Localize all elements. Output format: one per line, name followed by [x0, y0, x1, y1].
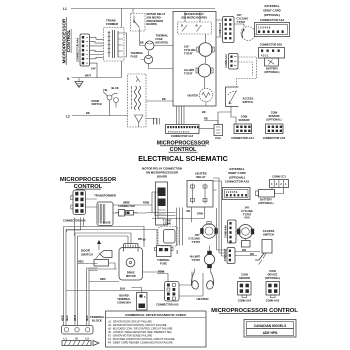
middle wire bundle (bottom) — [147, 118, 205, 254]
svg-text:BK: BK — [202, 110, 206, 114]
heater relay box (bottom) — [187, 181, 213, 208]
140 cycling t'stat caption (top) — [237, 13, 249, 24]
svg-text:BN: BN — [242, 248, 246, 252]
microprocessor control title (top schematic) — [157, 141, 210, 154]
svg-text:CONN: CONN — [163, 222, 171, 226]
svg-text:BATTERY: BATTERY — [260, 198, 272, 202]
heater element HR1 — [188, 88, 213, 106]
svg-text:CONNECTOR AA3: CONNECTOR AA3 — [225, 180, 250, 184]
thermal fuse F1 — [131, 51, 174, 69]
svg-text:SWITCH: SWITCH — [243, 100, 253, 104]
svg-text:RED: RED — [60, 315, 64, 321]
access switch (top) — [226, 87, 254, 107]
thermal fuse (heater) F2 — [140, 31, 174, 50]
svg-text:THERMAL: THERMAL — [156, 34, 169, 38]
svg-text:BOARD: BOARD — [157, 174, 167, 178]
svg-text:RED: RED — [100, 277, 106, 281]
conn CC1 caption and block — [270, 175, 289, 188]
svg-text:CONNECTOR AA4: CONNECTOR AA4 — [231, 136, 254, 140]
svg-text:ELECTRICAL SCHEMATIC: ELECTRICAL SCHEMATIC — [138, 154, 228, 163]
svg-text:8 7 6 5 4 3 2 1 4 3 2 1: 8 7 6 5 4 3 2 1 4 3 2 1 — [168, 130, 190, 133]
svg-text:SWITCH: SWITCH — [92, 102, 102, 106]
svg-text:ACCESS: ACCESS — [243, 97, 254, 101]
svg-text:(OPTIONAL): (OPTIONAL) — [258, 201, 273, 205]
svg-text:CONN CC1: CONN CC1 — [272, 175, 286, 179]
wires heater box to AA2 — [216, 20, 223, 37]
svg-text:COMMERCIAL DRYER DIAGNOSTIC CO: COMMERCIAL DRYER DIAGNOSTIC CODES — [125, 313, 186, 317]
svg-text:BK: BK — [140, 41, 144, 45]
wire connector — [116, 201, 138, 217]
svg-text:140°: 140° — [237, 13, 242, 17]
microprocessor control vertical title — [62, 17, 72, 65]
svg-text:(OPTIONAL): (OPTIONAL) — [265, 276, 280, 280]
svg-text:AUX: AUX — [244, 216, 250, 220]
wire bundle heater box to connector AA7 — [177, 106, 185, 125]
svg-text:YEL: YEL — [177, 249, 179, 254]
drive motor (bottom) — [119, 244, 143, 281]
connector AA3 block (top right) — [255, 23, 290, 37]
node L2 label and rail — [66, 111, 128, 119]
svg-text:SENSOR: SENSOR — [269, 114, 280, 118]
motor relay caption — [147, 12, 166, 26]
connector AA3 debit block (bottom) — [223, 188, 251, 200]
connector AA7 block — [166, 125, 200, 139]
wire labels terminal runs — [60, 315, 89, 321]
wire L1 top rail — [71, 8, 215, 10]
wires heater relay down — [187, 207, 205, 222]
svg-text:L2: L2 — [86, 337, 90, 341]
140 cycling t'stat caption (bottom) — [241, 206, 253, 220]
svg-text:YEL: YEL — [103, 88, 108, 92]
ground — [75, 78, 83, 88]
svg-text:CONN DD4: CONN DD4 — [117, 300, 131, 304]
node N label and rail — [67, 74, 122, 82]
canadian models box — [244, 320, 296, 338]
svg-text:24V: 24V — [91, 67, 96, 71]
svg-text:CONN AA2: CONN AA2 — [218, 22, 222, 36]
motor relay connection caption — [142, 167, 182, 179]
svg-text:WHT: WHT — [85, 74, 91, 78]
battery (bottom) — [256, 188, 284, 205]
motor relay K1 (dashed) — [131, 9, 146, 32]
dashed wires AA1 to access switch — [237, 57, 257, 87]
svg-text:RD: RD — [250, 252, 254, 256]
board terminal caption — [117, 294, 131, 305]
svg-text:CONN AA6: CONN AA6 — [224, 225, 227, 238]
heater relay K2 (dashed) — [178, 12, 212, 35]
svg-text:(OPTIONAL): (OPTIONAL) — [266, 118, 281, 122]
svg-text:DEBIT CARD: DEBIT CARD — [263, 9, 280, 13]
svg-text:CYCLING: CYCLING — [237, 16, 249, 20]
left-mid vertical bundle (bottom schematic) — [152, 192, 176, 219]
svg-text:CANADIAN MODELS: CANADIAN MODELS — [254, 324, 287, 328]
svg-text:SWITCH: SWITCH — [263, 233, 274, 237]
svg-text:HEATER: HEATER — [196, 297, 209, 301]
155 cycling t'stat — [184, 34, 214, 63]
svg-text:BLK: BLK — [120, 287, 125, 291]
svg-text:COIN: COIN — [271, 111, 278, 115]
motor relay module (bottom) — [156, 182, 168, 225]
svg-text:1 2 3 4 5 6: 1 2 3 4 5 6 — [226, 191, 238, 194]
wire transformer primary drop from L1 — [121, 9, 123, 28]
svg-text:RDW: RDW — [158, 270, 165, 274]
svg-text:CONN AA5: CONN AA5 — [266, 299, 280, 303]
connector AA6 block — [63, 190, 86, 223]
svg-text:THERMAL: THERMAL — [131, 51, 144, 55]
svg-text:CONN AA4: CONN AA4 — [238, 299, 252, 303]
svg-text:EXTERNAL: EXTERNAL — [264, 4, 279, 8]
wires AA4 to transformer — [90, 37, 104, 78]
wire BK into heater box — [146, 97, 173, 101]
svg-text:(HEATER): (HEATER) — [156, 40, 168, 44]
svg-text:CONNECTOR DD1: CONNECTOR DD1 — [260, 43, 283, 47]
bottom harness rails — [64, 227, 158, 326]
drive motor M1 (schematic, dashed) — [128, 74, 147, 127]
svg-text:BLUE: BLUE — [112, 86, 119, 90]
terminal block — [62, 315, 105, 341]
svg-text:CYCLING: CYCLING — [241, 209, 253, 213]
transformer T1 — [104, 28, 125, 62]
svg-text:(ON MICRO-: (ON MICRO- — [147, 15, 162, 19]
svg-text:DRIVE: DRIVE — [127, 271, 135, 275]
svg-text:SWITCH: SWITCH — [81, 253, 93, 257]
svg-text:CONN AA7: CONN AA7 — [224, 248, 227, 261]
svg-text:HI-LIMIT: HI-LIMIT — [190, 255, 201, 259]
svg-text:L1: L1 — [63, 7, 67, 11]
svg-text:155°: 155° — [195, 233, 200, 237]
battery (top right) — [264, 58, 279, 74]
svg-text:4 3 2 1: 4 3 2 1 — [261, 55, 269, 58]
svg-text:BOARD): BOARD) — [147, 22, 158, 26]
wire access switch down — [231, 107, 236, 125]
coin sensor caption (top) — [239, 115, 250, 123]
svg-text:CONNECTOR AA3: CONNECTOR AA3 — [260, 18, 285, 22]
svg-text:CONN AA1: CONN AA1 — [224, 54, 228, 68]
svg-text:L2: L2 — [66, 115, 70, 119]
coin sensor optional caption (top) — [266, 111, 281, 122]
svg-text:BATTERY: BATTERY — [266, 67, 278, 71]
svg-text:COIN: COIN — [241, 115, 248, 119]
svg-text:RD: RD — [138, 237, 142, 241]
svg-text:CONNECTOR AA5: CONNECTOR AA5 — [263, 136, 286, 140]
svg-text:T'STAT: T'STAT — [184, 51, 193, 55]
svg-text:140°: 140° — [244, 206, 249, 210]
svg-text:N: N — [76, 337, 78, 341]
svg-text:TERMINAL: TERMINAL — [117, 297, 131, 301]
CGA box — [214, 125, 223, 141]
svg-text:RD: RD — [204, 117, 208, 121]
thermal fuse (bottom) — [155, 246, 174, 266]
svg-text:BLOCK: BLOCK — [92, 319, 102, 323]
svg-text:T'STAT: T'STAT — [184, 71, 193, 75]
conn AA1 block (top) — [229, 54, 239, 70]
door switch (bottom) — [81, 240, 117, 269]
svg-text:T'STAT: T'STAT — [243, 212, 252, 216]
wires door switch to motor — [66, 260, 165, 291]
svg-text:RELAY: RELAY — [196, 175, 205, 179]
svg-text:MICROPROCESSOR CONTROL: MICROPROCESSOR CONTROL — [211, 308, 298, 314]
ground bus bar — [62, 341, 99, 346]
svg-text:CONNECTOR: CONNECTOR — [118, 204, 135, 208]
t-stat connector (dashed) — [158, 219, 178, 247]
wire transformer to bundle — [113, 205, 152, 213]
svg-text:F8 - DEBIT CARD READER COMMU: F8 - DEBIT CARD READER COMMUNICATION FAI… — [108, 342, 173, 345]
svg-text:BASE: BASE — [103, 221, 110, 225]
conn AA5 grid (bottom) — [266, 282, 280, 303]
svg-text:(OPTIONAL): (OPTIONAL) — [264, 70, 279, 74]
svg-text:GRN: GRN — [197, 212, 203, 216]
svg-text:HEATER RELAY: HEATER RELAY — [184, 12, 204, 16]
svg-text:CGA: CGA — [215, 136, 221, 140]
board terminal connector — [132, 288, 148, 311]
heater enclosure box — [173, 12, 216, 107]
svg-text:RED: RED — [78, 260, 84, 264]
conn AA2 block (top) — [223, 17, 235, 43]
coin device caption (bottom) — [265, 269, 280, 280]
connector AA5 block (top right) — [263, 124, 286, 140]
svg-text:SENSOR: SENSOR — [239, 276, 250, 280]
svg-text:COIN: COIN — [241, 273, 248, 277]
155 cycling t'stat (bottom) — [188, 222, 217, 244]
wires into AA7 from left — [154, 118, 160, 125]
hi-limit t'stat (bottom) — [190, 246, 215, 269]
external debit card caption (bottom) — [225, 167, 250, 184]
hi-limit t'stat — [184, 64, 213, 88]
svg-text:T'STAT: T'STAT — [237, 20, 246, 24]
diagnostic codes legend box — [106, 311, 207, 347]
svg-text:L1: L1 — [64, 337, 68, 341]
svg-text:HI-LIMIT: HI-LIMIT — [184, 68, 195, 72]
svg-text:T'STAT: T'STAT — [191, 258, 200, 262]
microprocessor control title (bottom right) — [211, 308, 298, 314]
svg-text:FUSE: FUSE — [160, 261, 167, 265]
svg-text:CONNECTOR AA7: CONNECTOR AA7 — [171, 134, 194, 138]
connector DD1 caption and block — [259, 43, 285, 59]
svg-text:WIRE: WIRE — [123, 201, 130, 205]
access switch (bottom) — [255, 229, 274, 265]
conn AA1 vertical (bottom) — [224, 220, 238, 243]
svg-text:RD: RD — [187, 209, 191, 213]
svg-text:FUSE: FUSE — [131, 54, 138, 58]
svg-text:T'STAT: T'STAT — [191, 240, 200, 244]
svg-text:CYCLING: CYCLING — [188, 236, 200, 240]
connector AA4 block (top right) — [231, 124, 254, 140]
svg-text:BLK: BLK — [65, 315, 69, 320]
svg-text:FUSE: FUSE — [156, 37, 163, 41]
svg-text:FORMER: FORMER — [106, 22, 118, 26]
svg-text:PROCESSOR: PROCESSOR — [147, 19, 164, 23]
external debit card caption (top right) — [260, 4, 285, 22]
heater relay caption (bottom) — [195, 172, 206, 180]
svg-text:1 2 3 4 5 6: 1 2 3 4 5 6 — [258, 26, 271, 30]
svg-text:CYCLING: CYCLING — [184, 48, 196, 52]
wire transformer secondary out — [122, 33, 127, 78]
transformer T1 (bottom) — [86, 194, 116, 226]
door switch S1 — [92, 86, 119, 116]
coin sensor caption (bottom) — [239, 273, 250, 281]
wires AA6 down to harness — [67, 218, 84, 237]
svg-text:SENSOR: SENSOR — [239, 118, 250, 122]
heater element (bottom) — [191, 268, 213, 301]
svg-text:MOTOR RELAY: MOTOR RELAY — [147, 12, 166, 16]
svg-text:CONNECTOR AA4: CONNECTOR AA4 — [76, 37, 80, 62]
svg-text:WHT: WHT — [73, 315, 77, 321]
svg-text:TRANSFORMER: TRANSFORMER — [94, 194, 116, 198]
140 cycling t'stat (bottom) — [237, 225, 254, 248]
svg-text:MOTOR: MOTOR — [126, 274, 136, 278]
svg-text:155°: 155° — [184, 45, 189, 49]
svg-text:BOARD: BOARD — [119, 294, 129, 298]
svg-text:BK: BK — [162, 97, 166, 101]
svg-text:(OPTIONAL): (OPTIONAL) — [264, 13, 280, 17]
140 cycling t'stat symbol (top) — [234, 24, 255, 41]
conn AA4 grid (bottom) — [238, 282, 252, 303]
svg-text:THERMAL: THERMAL — [157, 258, 170, 262]
wires AA3 block — [157, 270, 203, 297]
heater relay caption (top schematic) — [181, 12, 206, 19]
svg-text:BK: BK — [86, 111, 90, 115]
svg-text:COIN: COIN — [269, 269, 276, 273]
connector AA4 block — [80, 34, 90, 66]
microprocessor control title (bottom left) — [60, 177, 117, 190]
wires BK RD to CGA — [199, 110, 231, 129]
right wire bundle (bottom) — [213, 178, 228, 256]
svg-text:ADE HPN: ADE HPN — [263, 331, 278, 335]
svg-text:BLK: BLK — [85, 315, 89, 320]
connector AA3 block (bottom mid) — [156, 282, 179, 307]
svg-text:CONNECTOR AA2: CONNECTOR AA2 — [156, 303, 179, 307]
svg-text:RDW: RDW — [143, 201, 150, 205]
coin conn vertical (bottom) — [224, 248, 260, 264]
svg-text:DEVICE: DEVICE — [268, 273, 278, 277]
svg-text:HEATER: HEATER — [188, 94, 199, 98]
wire motor to connector run — [146, 119, 157, 125]
